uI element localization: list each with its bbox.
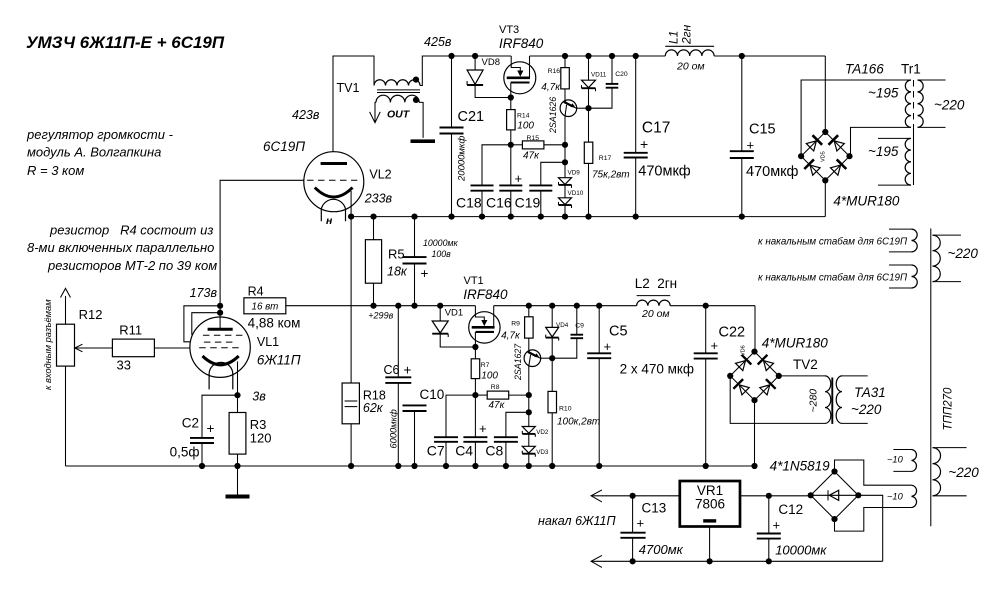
svg-text:TV1: TV1 (337, 81, 360, 95)
svg-text:VD3: VD3 (536, 449, 549, 456)
svg-text:18к: 18к (387, 265, 408, 279)
svg-text:C8: C8 (485, 443, 503, 459)
node ground rail / C8 bottom (503, 463, 509, 469)
svg-text:VD10: VD10 (568, 190, 584, 197)
node VD4/2SA1627/C9/R10 (549, 355, 555, 361)
svg-text:модуль А. Волгапкина: модуль А. Волгапкина (27, 145, 161, 160)
node 233в rail / C15 bottom (739, 214, 745, 220)
svg-text:R15: R15 (527, 135, 540, 142)
node +299в rail / R9 top (526, 303, 532, 309)
svg-text:R11: R11 (119, 323, 142, 338)
capacitor C17 (635, 56, 637, 153)
wire TV1 primary right to 425в rail (420, 56, 452, 86)
node VL1 anode 2 (217, 310, 223, 316)
inductor L1 (665, 45, 714, 47)
TV1 phase dot secondary (413, 97, 419, 103)
svg-text:L1: L1 (667, 31, 681, 44)
resistor R16 (564, 56, 566, 68)
svg-text:75к,2вт: 75к,2вт (592, 170, 630, 181)
node +299в rail / VD4 top (549, 303, 555, 309)
node 425в rail / VD8 anode (472, 53, 478, 59)
svg-text:173в: 173в (190, 286, 218, 300)
node return line / VR1 gnd (707, 558, 713, 564)
svg-text:н: н (326, 215, 333, 227)
svg-text:~220: ~220 (948, 465, 979, 480)
svg-text:120: 120 (250, 431, 272, 446)
svg-text:C21: C21 (458, 109, 485, 125)
bridge rectifier VD6 4*MUR180 (lower) (730, 352, 779, 401)
wire VL1 cathode lead (237, 362, 239, 396)
svg-text:R14: R14 (517, 113, 530, 120)
svg-text:C16: C16 (486, 195, 512, 211)
node +299в rail / R5 bottom (370, 303, 376, 309)
wire bridge2 left to TV2 primary bottom (730, 376, 825, 424)
svg-text:100к,2вт: 100к,2вт (557, 417, 600, 428)
svg-text:VD6: VD6 (741, 345, 747, 356)
capacitor C8 (506, 412, 529, 437)
capacitor C21 (451, 56, 453, 128)
VL1 anode bar (208, 328, 233, 331)
transistor 2SA1627 (524, 350, 541, 367)
resistor R7 (474, 347, 476, 359)
svg-text:+: + (421, 266, 429, 281)
svg-text:IRF840: IRF840 (499, 36, 544, 51)
svg-text:VD11: VD11 (591, 72, 607, 79)
svg-text:33: 33 (117, 358, 131, 373)
wire bridge right to Tr1 primary bottom (850, 127, 912, 156)
node +299в rail / VD1 top (437, 303, 443, 309)
node +299в rail / C6 top (395, 303, 401, 309)
node 233в rail / C17 bottom (633, 214, 639, 220)
svg-text:C4: C4 (455, 443, 473, 459)
TV1 phase dot primary (413, 77, 419, 83)
resistor R5 (373, 217, 375, 240)
mains winding ~220 (upper) (933, 235, 941, 282)
svg-text:10000мк: 10000мк (775, 543, 827, 558)
svg-text:4700мк: 4700мк (639, 542, 684, 557)
svg-text:C10: C10 (420, 387, 445, 402)
svg-text:ТА31: ТА31 (854, 385, 886, 400)
svg-text:20000мкф: 20000мкф (457, 136, 468, 182)
svg-text:C17: C17 (642, 120, 670, 137)
svg-text:7806: 7806 (695, 497, 725, 512)
VL2 cathode arc (315, 188, 353, 198)
ground bar TV1 (411, 139, 436, 143)
bridge rectifier VD5 4*MUR180 (upper) (801, 132, 849, 180)
svg-text:+: + (711, 338, 719, 353)
svg-text:2гн: 2гн (680, 24, 694, 45)
capacitor C12 (768, 496, 770, 534)
resistor R8 (475, 394, 487, 396)
capacitor C22 (705, 306, 707, 354)
svg-text:2 х 470 мкф: 2 х 470 мкф (620, 362, 694, 377)
svg-text:C15: C15 (749, 122, 776, 138)
svg-text:6Ж11П: 6Ж11П (257, 353, 301, 368)
svg-text:R10: R10 (559, 406, 572, 413)
node ground rail / bridge VD6 bottom (751, 463, 757, 469)
svg-text:накал 6Ж11П: накал 6Ж11П (538, 514, 616, 528)
svg-text:16 вт: 16 вт (252, 302, 279, 313)
svg-text:VD9: VD9 (568, 170, 581, 177)
node ground rail / C22 bottom (703, 463, 709, 469)
svg-text:TV2: TV2 (793, 357, 818, 372)
svg-text:100: 100 (517, 121, 534, 132)
node 425в rail / C15 top (739, 53, 745, 59)
svg-text:VD8: VD8 (482, 57, 500, 68)
wire VR1 input (740, 495, 811, 497)
capacitor C19 (541, 162, 565, 185)
ground rail (bottom) (66, 465, 755, 467)
svg-text:резисторов МТ-2 по 39 ком: резисторов МТ-2 по 39 ком (47, 258, 217, 273)
svg-text:+: + (773, 518, 781, 533)
node 233в rail / R5 top (370, 214, 376, 220)
node VL1 anode/R4 (217, 303, 223, 309)
svg-text:4,7к: 4,7к (501, 331, 521, 342)
svg-text:C19: C19 (515, 195, 541, 211)
VL1 grid dashed lines (203, 334, 243, 336)
node R15/2SA1626 (562, 142, 568, 148)
wire VL2 grid to VL1 anode (220, 180, 304, 305)
svg-text:4,88 ком: 4,88 ком (248, 316, 301, 331)
VL2 grid dashed (307, 179, 357, 181)
capacitor C13 (632, 496, 634, 533)
wire 425в rail to bridge top (824, 56, 826, 132)
svg-text:4*MUR180: 4*MUR180 (762, 336, 829, 351)
svg-text:регулятор громкости -: регулятор громкости - (26, 127, 174, 142)
node ground rail / C10 bottom (411, 463, 417, 469)
svg-text:L2 2гн: L2 2гн (635, 276, 677, 291)
svg-text:+299в: +299в (368, 311, 393, 321)
svg-text:~280: ~280 (808, 389, 820, 413)
node R8/2SA1627/VD2 (526, 392, 532, 398)
node ground rail / C5 bottom (596, 463, 602, 469)
svg-text:100: 100 (481, 371, 498, 382)
node накал line / C13 top (630, 493, 636, 499)
svg-text:OUT: OUT (387, 109, 411, 121)
resistor R3 (237, 395, 239, 412)
node VD11/C20/R17 (585, 105, 591, 111)
resistor R9 (528, 306, 530, 317)
svg-text:470мкф: 470мкф (746, 164, 799, 180)
svg-text:C13: C13 (642, 501, 667, 516)
node return line / C12 bottom (766, 558, 772, 564)
node VT3 source (508, 94, 514, 100)
capacitor C15 (741, 56, 743, 151)
svg-text:+: + (640, 136, 648, 152)
svg-text:8-ми включенных параллельно: 8-ми включенных параллельно (27, 240, 214, 255)
capacitor C4 (474, 395, 476, 437)
svg-text:VT1: VT1 (464, 275, 484, 287)
node ground rail / C2 bottom (199, 463, 205, 469)
233в rail (middle) (351, 216, 825, 218)
transistor 2SA1626 (560, 100, 577, 117)
svg-text:VD1: VD1 (445, 308, 463, 319)
resistor R17 (584, 142, 593, 163)
capacitor C7 (446, 395, 475, 437)
svg-text:+: + (515, 171, 523, 186)
svg-text:+: + (604, 339, 612, 354)
capacitor C16 (510, 145, 512, 186)
svg-text:0,5ф: 0,5ф (170, 445, 200, 460)
svg-text:VD2: VD2 (536, 429, 549, 436)
node ground rail / C4 bottom (472, 463, 478, 469)
wire TV1 secondary right lead to ground (419, 102, 423, 137)
svg-text:Tr1: Tr1 (901, 62, 921, 77)
wire VR1 output (накал line) (591, 495, 680, 497)
svg-text:+: + (747, 138, 755, 153)
wire bridge3 right to return line (858, 495, 882, 561)
svg-text:470мкф: 470мкф (638, 164, 691, 180)
svg-text:+: + (479, 421, 487, 436)
node R14/R15 junction (508, 142, 514, 148)
svg-text:УМЗЧ 6Ж11П-Е + 6С19П: УМЗЧ 6Ж11П-Е + 6С19П (26, 33, 225, 52)
svg-text:3в: 3в (252, 390, 266, 404)
svg-text:2SA1626: 2SA1626 (548, 97, 558, 134)
svg-text:к входным разъёмам: к входным разъёмам (43, 299, 53, 390)
VL1 cathode arc (203, 356, 239, 365)
svg-text:R = 3 ком: R = 3 ком (27, 163, 84, 178)
svg-text:47к: 47к (489, 400, 506, 411)
node 425в rail / R16 top (562, 53, 568, 59)
VL1 heater (209, 362, 233, 389)
tube VL1 6Ж11П (190, 317, 250, 377)
wire bridge bottom to 233в rail (824, 180, 826, 216)
capacitor C6 (397, 306, 399, 378)
425в rail left part (452, 55, 512, 57)
svg-text:к накальным стабам для 6С19П: к накальным стабам для 6С19П (758, 273, 908, 284)
svg-text:62к: 62к (363, 401, 384, 415)
resistor R10 (551, 358, 553, 391)
svg-text:2SA1627: 2SA1627 (513, 343, 523, 381)
svg-text:20 ом: 20 ом (676, 61, 705, 73)
svg-text:100в: 100в (432, 249, 452, 259)
svg-text:47к: 47к (523, 151, 540, 162)
bottom return line (591, 560, 883, 562)
svg-text:+: + (207, 421, 215, 436)
wire VL2 anode to TV1 (333, 56, 374, 152)
svg-text:VL1: VL1 (257, 335, 279, 349)
svg-text:4*MUR180: 4*MUR180 (833, 194, 900, 209)
wire bridge3 bottom to ~10 winding 2 bottom (835, 508, 912, 532)
node 233в rail / C18 bottom (479, 214, 485, 220)
wire TV1 secondary left lead with OUT arrow (375, 102, 376, 122)
wire feedback inner loop (192, 313, 220, 335)
node C19 branch (562, 159, 568, 165)
resistor R18 (350, 217, 352, 383)
svg-text:425в: 425в (424, 35, 452, 49)
svg-text:C18: C18 (456, 195, 482, 211)
svg-text:6С19П: 6С19П (263, 139, 305, 154)
ground symbol (237, 466, 239, 495)
wire bridge3 top to ~10 winding 2 top (835, 460, 912, 485)
node +299в rail / C10 top (411, 303, 417, 309)
svg-text:~10: ~10 (887, 492, 904, 502)
svg-text:C20: C20 (615, 71, 628, 78)
svg-text:+: + (637, 516, 645, 531)
svg-text:TA166: TA166 (845, 62, 884, 77)
wire feedback outer loop (184, 306, 220, 342)
resistor R14 (510, 98, 512, 110)
node ground rail / R10 bottom (549, 463, 555, 469)
svg-text:IRF840: IRF840 (463, 287, 508, 302)
resistor R15 (511, 144, 523, 146)
wire bridge2 bottom to ground rail (754, 400, 756, 466)
capacitor C5 (598, 306, 600, 354)
svg-text:C22: C22 (719, 325, 746, 341)
node ground rail / C6 bottom (395, 463, 401, 469)
capacitor C18 (482, 145, 511, 186)
VL2 anode bar (321, 162, 347, 165)
425в rail right part (530, 55, 666, 57)
svg-text:R8: R8 (491, 384, 500, 391)
node 425в rail / C20 top (609, 53, 615, 59)
VL2 heater (321, 199, 345, 221)
svg-text:VT3: VT3 (499, 24, 519, 36)
svg-text:~220: ~220 (948, 246, 979, 261)
svg-text:~10: ~10 (887, 455, 904, 465)
node 233в rail / C19 bottom (538, 214, 544, 220)
svg-text:6000мкф: 6000мкф (389, 409, 399, 448)
node 425в rail / VD11 top (585, 53, 591, 59)
node ground rail / R18 bottom (348, 463, 354, 469)
node ground rail / VD3 bottom (526, 463, 532, 469)
svg-text:R5: R5 (388, 247, 405, 262)
svg-text:резистор R4 состоит из: резистор R4 состоит из (49, 223, 213, 238)
svg-text:C5: C5 (609, 324, 628, 340)
svg-text:VD5: VD5 (821, 151, 827, 162)
node VR1 input / C12 top (766, 493, 772, 499)
node +299в rail / C22 top (703, 303, 709, 309)
wire VR1 ground (709, 527, 711, 562)
+299в rail (286, 305, 476, 307)
svg-text:233в: 233в (364, 192, 393, 206)
node 425в rail / C17 top (633, 53, 639, 59)
node 425в rail / C21 top (448, 53, 454, 59)
svg-text:R17: R17 (599, 155, 612, 162)
wire +299в rail to bridge2 (754, 306, 756, 352)
node 233в rail / 10000мк cap top (411, 214, 417, 220)
node 233в rail / VL2 cathode + R18 (348, 214, 354, 220)
svg-text:4,7к: 4,7к (541, 82, 561, 93)
wire VL2 cathode to rail (350, 191, 352, 217)
svg-text:к накальным стабам для 6С19П: к накальным стабам для 6С19П (758, 237, 908, 248)
svg-text:~220: ~220 (934, 98, 965, 113)
svg-text:ТПП270: ТПП270 (943, 387, 955, 430)
node C8 tap (526, 409, 532, 415)
svg-text:~195: ~195 (868, 144, 899, 159)
regulator VR1 7806 (680, 481, 740, 527)
svg-text:C7: C7 (427, 443, 445, 459)
capacitor C10 (403, 404, 427, 406)
svg-text:4*1N5819: 4*1N5819 (770, 459, 831, 474)
wire bridge2 right to TV2 primary top (779, 375, 825, 377)
node 233в rail / C16 bottom (508, 214, 514, 220)
capacitor C2 (202, 395, 238, 438)
svg-text:20 ом: 20 ом (641, 308, 670, 320)
svg-text:R4: R4 (248, 285, 264, 299)
svg-text:VL2: VL2 (369, 168, 391, 182)
svg-text:+: + (404, 363, 412, 378)
svg-text:R16: R16 (548, 68, 561, 75)
wire bridge left to Tr1 primary top (801, 80, 911, 156)
svg-text:C2: C2 (182, 416, 199, 431)
mains winding ~220 (lower) (933, 448, 941, 496)
capacitor 10000мк 100в (414, 217, 416, 258)
node ground rail / C7 bottom (443, 463, 449, 469)
svg-text:C12: C12 (778, 502, 803, 517)
svg-text:~220: ~220 (851, 402, 882, 417)
node +299в rail / C9 top (574, 303, 580, 309)
svg-text:R9: R9 (511, 321, 520, 328)
svg-text:423в: 423в (292, 108, 320, 122)
svg-text:~195: ~195 (868, 86, 899, 101)
node ground rail / R3 bottom + ground (234, 463, 240, 469)
node 233в rail / VD10 bottom (562, 214, 568, 220)
node 233в rail / C21 bottom (448, 214, 454, 220)
svg-text:R12: R12 (79, 307, 103, 322)
ТПП270 core (930, 229, 932, 527)
node 233в rail / R17 bottom (585, 214, 591, 220)
svg-text:C6: C6 (384, 363, 400, 377)
node return line / C13 bottom (630, 558, 636, 564)
node +299в rail / C5 top (596, 303, 602, 309)
svg-text:10000мк: 10000мк (423, 238, 458, 248)
svg-text:R7: R7 (481, 362, 490, 369)
node R7/R8/C7/C4 (472, 392, 478, 398)
